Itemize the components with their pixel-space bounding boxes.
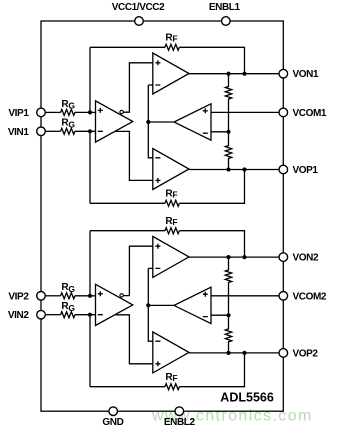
- wire VCOM2: [211, 295, 279, 297]
- junction node VIN2/RG: [88, 313, 92, 317]
- wire RF ch2 bottom left segment: [90, 386, 165, 388]
- wire U1d - input hook to U1b: [148, 85, 153, 158]
- wire U2a output to U2c + input: [116, 315, 153, 364]
- wire RG to U1a + input: [75, 111, 96, 113]
- resistor RG (VIN1): [61, 128, 75, 134]
- pin VIP1: [37, 108, 46, 117]
- op-amp U1a input stage: [96, 101, 133, 142]
- svg-text:GND: GND: [102, 417, 123, 428]
- svg-text:ENBL2: ENBL2: [164, 417, 196, 428]
- junction node VOP1/RF: [242, 167, 246, 171]
- wire VOP2 output: [189, 352, 279, 354]
- resistor divider upper ch2: [225, 257, 231, 315]
- svg-text:G: G: [68, 284, 75, 294]
- resistor RG (VIP2): [61, 293, 75, 299]
- junction node VON1/divider: [226, 72, 230, 76]
- wire VIP2 input: [45, 295, 60, 297]
- op-amp U1d common-mode buffer: [174, 104, 211, 140]
- svg-text:VOP1: VOP1: [293, 165, 319, 176]
- junction node center ch2: [146, 303, 150, 307]
- wire RF ch2 bottom right segment: [179, 353, 244, 387]
- svg-text:G: G: [68, 101, 75, 111]
- svg-text:F: F: [172, 34, 177, 44]
- resistor RG (VIN2): [61, 312, 75, 318]
- junction node VOP2/RF: [242, 351, 246, 355]
- svg-text:VCOM2: VCOM2: [293, 291, 327, 302]
- svg-text:VIP1: VIP1: [8, 108, 29, 119]
- wire RF ch2 top left segment: [90, 230, 165, 232]
- svg-text:G: G: [68, 303, 75, 313]
- pin VON1: [279, 69, 288, 78]
- op-amp U2d common-mode buffer: [174, 287, 211, 323]
- chip outline border: [41, 21, 283, 411]
- wire center node to U1d output: [148, 121, 174, 123]
- wire feedback top vertical: [89, 47, 91, 112]
- wire RG to U2a + input: [75, 295, 96, 297]
- resistor divider upper (VON1 to VCOM tap): [225, 74, 231, 132]
- junction node VON2/RF: [242, 255, 246, 259]
- resistor RF (top): [165, 44, 179, 50]
- wire feedback bottom vertical ch2: [89, 315, 91, 387]
- svg-text:VON2: VON2: [293, 253, 319, 264]
- wire U2d - input hook: [148, 268, 153, 341]
- pin VOP2: [279, 349, 288, 358]
- wire RF top left segment: [90, 46, 165, 48]
- svg-text:VOP2: VOP2: [293, 348, 319, 359]
- svg-text:F: F: [172, 373, 177, 383]
- resistor RF (bottom): [165, 200, 179, 206]
- junction node VIN1/RG: [88, 129, 92, 133]
- pin VIP2: [37, 292, 46, 301]
- svg-text:G: G: [68, 120, 75, 130]
- inverter bubble on U1a top output: [120, 110, 123, 113]
- junction node center (U1d output): [146, 120, 150, 124]
- resistor divider lower (tap to VOP1): [225, 132, 231, 170]
- wire U2a inverted output to U2b + input: [123, 246, 153, 295]
- wire VOP1 output: [189, 169, 279, 171]
- junction node VOP1/divider: [226, 167, 230, 171]
- svg-text:ENBL1: ENBL1: [209, 2, 241, 13]
- pin VIN1: [37, 127, 46, 136]
- op-amp U1c bottom output amp: [153, 149, 189, 190]
- wire RF bottom left segment: [90, 202, 165, 204]
- wire VIN2 input: [45, 314, 60, 316]
- op-amp U1b top output amp: [153, 53, 189, 94]
- wire VIN1 input: [45, 130, 60, 132]
- wire VON1 output: [189, 73, 279, 75]
- pin VON2: [279, 253, 288, 262]
- wire U1a output to U1c + input: [116, 131, 153, 180]
- pin ENBL2: [175, 407, 184, 416]
- junction node divider tap ch2: [226, 313, 230, 317]
- pin ENBL1: [222, 17, 231, 26]
- wire RF ch2 top right segment: [179, 231, 244, 257]
- inverter bubble on U2a top output: [120, 294, 123, 297]
- junction node divider tap: [226, 130, 230, 134]
- svg-text:VON1: VON1: [293, 69, 319, 80]
- svg-text:ADL5566: ADL5566: [220, 391, 274, 405]
- pin VCOM1: [279, 108, 288, 117]
- junction node VOP2/divider: [226, 351, 230, 355]
- resistor RF (ch2 top): [165, 228, 179, 234]
- wire divider tap to U2d - input: [211, 314, 229, 316]
- wire RF top right segment: [179, 47, 244, 73]
- svg-text:F: F: [172, 190, 177, 200]
- wire VON2 output: [189, 256, 279, 258]
- junction node VON1/RF: [242, 72, 246, 76]
- wire RF bottom right segment: [179, 170, 244, 204]
- resistor divider lower ch2: [225, 315, 231, 353]
- wire VIP1 input: [45, 111, 60, 113]
- pin VIN2: [37, 310, 46, 319]
- wire RG to U2a - input: [75, 314, 96, 316]
- pin VCOM2: [279, 292, 288, 301]
- pin GND: [109, 407, 118, 416]
- op-amp U2c bottom output amp: [153, 332, 189, 373]
- op-amp U2b top output amp: [153, 236, 189, 277]
- svg-text:VIN1: VIN1: [8, 127, 29, 138]
- junction node VIP2/RG: [88, 294, 92, 298]
- wire feedback bottom vertical: [89, 131, 91, 203]
- resistor RG (VIP1): [61, 109, 75, 115]
- pin VOP1: [279, 165, 288, 174]
- wire feedback top vertical ch2: [89, 231, 91, 296]
- wire U1a inverted output to U1b + input: [123, 63, 153, 112]
- svg-text:VIP2: VIP2: [8, 291, 29, 302]
- op-amp U2a input stage: [96, 284, 133, 325]
- svg-text:F: F: [172, 217, 177, 227]
- wire center node to U2d output: [148, 304, 174, 306]
- svg-text:VIN2: VIN2: [8, 310, 29, 321]
- pin VCC1/VCC2: [135, 17, 144, 26]
- svg-text:VCC1/VCC2: VCC1/VCC2: [112, 2, 165, 13]
- resistor RF (ch2 bottom): [165, 384, 179, 390]
- wire VCOM1: [211, 111, 279, 113]
- junction node VIP1/RG: [88, 110, 92, 114]
- wire RG to U1a - input: [75, 130, 96, 132]
- svg-text:VCOM1: VCOM1: [293, 108, 327, 119]
- junction node VON2/divider: [226, 255, 230, 259]
- wire divider tap to U1d - input: [211, 131, 229, 133]
